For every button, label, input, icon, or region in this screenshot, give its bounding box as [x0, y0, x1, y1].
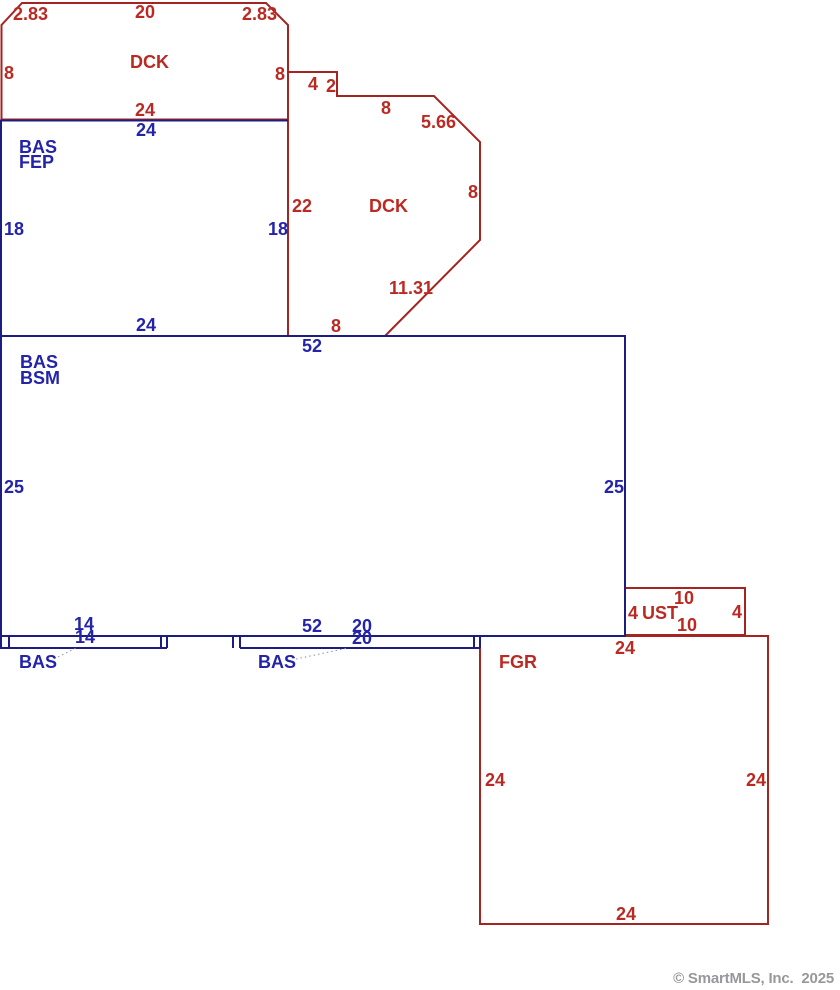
- svg-text:DCK: DCK: [369, 196, 408, 216]
- garage FGR outline: [480, 636, 768, 924]
- svg-text:8: 8: [275, 64, 285, 84]
- svg-text:2.83: 2.83: [13, 4, 48, 24]
- svg-text:24: 24: [135, 100, 155, 120]
- svg-text:20: 20: [135, 2, 155, 22]
- svg-text:UST: UST: [642, 603, 678, 623]
- svg-text:FGR: FGR: [499, 652, 537, 672]
- svg-text:11.31: 11.31: [389, 278, 433, 298]
- svg-text:22: 22: [292, 196, 312, 216]
- svg-text:10: 10: [677, 615, 697, 635]
- basement BSM outline: [1, 336, 625, 636]
- porch 2 right post: [473, 636, 475, 648]
- svg-text:24: 24: [746, 770, 766, 790]
- svg-text:2.83: 2.83: [242, 4, 277, 24]
- svg-text:8: 8: [468, 182, 478, 202]
- svg-text:4: 4: [308, 74, 318, 94]
- svg-text:52: 52: [302, 336, 322, 356]
- svg-text:25: 25: [604, 477, 624, 497]
- porch 1 left end wall: [0, 636, 2, 648]
- svg-text:BAS: BAS: [19, 652, 57, 672]
- svg-text:18: 18: [268, 219, 288, 239]
- utility shed UST outline: [625, 588, 745, 635]
- svg-text:8: 8: [4, 63, 14, 83]
- svg-text:© SmartMLS, Inc. 2025: © SmartMLS, Inc. 2025: [673, 970, 834, 987]
- svg-text:24: 24: [136, 120, 156, 140]
- svg-text:52: 52: [302, 616, 322, 636]
- porch 1 right post: [160, 636, 162, 648]
- svg-text:14: 14: [75, 627, 95, 647]
- svg-text:25: 25: [4, 477, 24, 497]
- deck DCK1 outline (top-left deck with beveled corners): [2, 3, 289, 120]
- svg-text:BSM: BSM: [20, 368, 60, 388]
- svg-text:DCK: DCK: [130, 52, 169, 72]
- porch 2 right end wall: [479, 636, 481, 648]
- svg-text:24: 24: [485, 770, 505, 790]
- porch 2 left end wall: [239, 636, 241, 648]
- svg-text:2: 2: [326, 76, 336, 96]
- svg-text:8: 8: [331, 316, 341, 336]
- deck DCK2 outline (right deck polygon): [288, 72, 480, 336]
- porch 1 left post: [8, 636, 10, 648]
- svg-text:18: 18: [4, 219, 24, 239]
- porch 2 left tick: [232, 636, 234, 648]
- svg-text:4: 4: [628, 603, 638, 623]
- svg-text:FEP: FEP: [19, 152, 54, 172]
- leader line to porch 1 label: [54, 648, 76, 659]
- svg-text:24: 24: [615, 638, 635, 658]
- svg-text:24: 24: [136, 315, 156, 335]
- svg-text:8: 8: [381, 98, 391, 118]
- porch 2 bottom wall: [240, 647, 480, 649]
- leader line to porch 2 label: [296, 648, 348, 659]
- porch FEP outline (left and top walls): [1, 121, 288, 337]
- porch 1 right end wall: [166, 636, 168, 648]
- svg-text:4: 4: [732, 602, 742, 622]
- svg-text:BAS: BAS: [258, 652, 296, 672]
- svg-text:5.66: 5.66: [421, 112, 456, 132]
- svg-text:20: 20: [352, 628, 372, 648]
- svg-text:24: 24: [616, 904, 636, 924]
- porch 1 bottom wall: [0, 647, 167, 649]
